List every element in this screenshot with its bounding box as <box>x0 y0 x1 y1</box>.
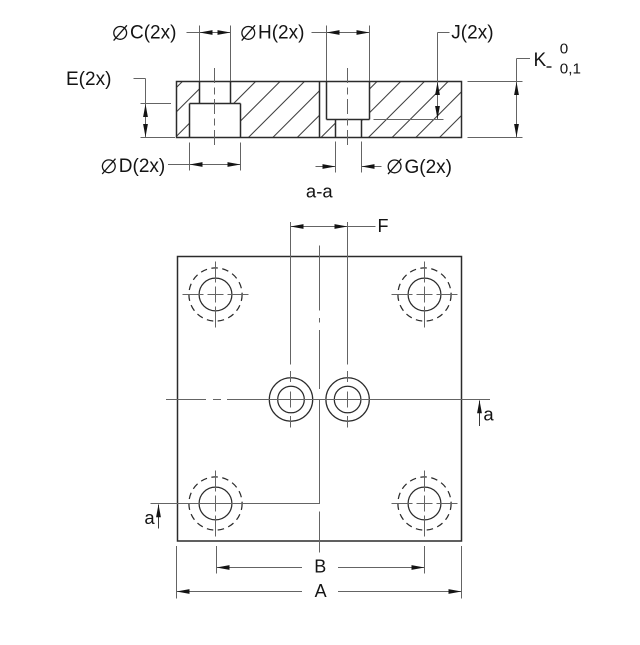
svg-text:D(2x): D(2x) <box>119 156 165 177</box>
centerline right hole <box>347 68 349 148</box>
dimension J: dimension line <box>437 82 439 120</box>
svg-text:a-a: a-a <box>306 180 333 201</box>
dimension G: outside arrows <box>316 166 336 168</box>
dimension J: leader <box>438 32 450 34</box>
dimension D: extension lines <box>189 143 191 171</box>
label ∅G(2x) <box>388 160 401 173</box>
svg-text:H(2x): H(2x) <box>258 23 304 44</box>
dimension K: leader and dimension line <box>517 58 531 60</box>
left counterbore D (section edges) <box>190 103 241 105</box>
corner hole bottom-left: center cross <box>183 471 249 537</box>
label ∅D(2x) <box>102 160 115 173</box>
svg-text:F: F <box>378 216 389 236</box>
corner hole top-left: bore circle <box>199 278 232 311</box>
svg-text:a: a <box>483 404 494 425</box>
horizontal centerline through center holes <box>166 399 462 401</box>
right hole bore G (section edges) <box>335 120 337 138</box>
dimension E: leader <box>134 78 146 80</box>
corner hole bottom-right: bore circle <box>408 487 441 520</box>
corner hole bottom-left: counterbore dashed circle <box>189 477 242 530</box>
svg-text:E(2x): E(2x) <box>66 69 111 90</box>
label ∅H(2x) <box>242 27 255 40</box>
vertical centerline of plate <box>319 246 321 553</box>
dimension E: dimension line <box>145 104 147 138</box>
section line a-a: horizontal leg through bottom-left hole <box>151 503 321 505</box>
corner hole bottom-right: center cross <box>392 471 458 537</box>
dimension C: extension lines <box>199 26 201 82</box>
center hole right: bore circle <box>334 386 361 413</box>
corner hole top-right: bore circle <box>408 278 441 311</box>
corner hole bottom-left: bore circle <box>199 487 232 520</box>
dimension C: dimension line and tail <box>187 32 231 34</box>
label ∅C(2x) <box>114 27 127 40</box>
hatching of sectioned plate (right of section bend) <box>320 80 498 139</box>
dimension B: extension lines <box>216 546 218 574</box>
plate outline (section) <box>177 82 462 138</box>
center hole left: vertical center ticks <box>290 371 292 428</box>
section arrow left <box>158 505 160 529</box>
plate outline (plan) <box>178 257 462 542</box>
corner hole bottom-right: counterbore dashed circle <box>398 477 451 530</box>
corner hole top-left: counterbore dashed circle <box>189 268 242 321</box>
center hole right: vertical center ticks <box>347 371 349 428</box>
svg-text:A: A <box>315 581 327 601</box>
corner hole top-right: counterbore dashed circle <box>398 268 451 321</box>
svg-text:0: 0 <box>560 40 568 57</box>
svg-text:B: B <box>314 557 326 577</box>
dimension H: extension lines <box>326 26 328 82</box>
right counterbore H (section edges) <box>326 82 328 120</box>
left hole bore C (section edges) <box>199 82 201 104</box>
corner hole top-left: center cross <box>183 262 249 328</box>
dimension F: dimension line and tail <box>291 226 376 228</box>
svg-text:a: a <box>144 507 155 528</box>
section line a-a: right stub <box>462 399 491 401</box>
svg-text:K: K <box>534 50 547 71</box>
section line a-a: vertical leg <box>319 400 321 504</box>
dimension A: dimension line <box>177 591 303 593</box>
dimension B: dimension line <box>217 567 303 569</box>
dimension D: dimension line and tail <box>168 164 241 166</box>
svg-text:C(2x): C(2x) <box>130 23 176 44</box>
dimension H: dimension line and tail <box>312 32 370 34</box>
dimension E: extension lines <box>141 103 172 105</box>
svg-text:J(2x): J(2x) <box>451 22 493 43</box>
hatching of sectioned plate (left of section bend) <box>125 80 355 139</box>
center hole left: bore circle <box>278 386 305 413</box>
svg-text:G(2x): G(2x) <box>405 157 453 178</box>
section bend line <box>319 82 321 138</box>
dimension G: extension lines <box>335 142 337 173</box>
corner hole top-right: center cross <box>392 262 458 328</box>
dimension A: extension lines <box>176 546 178 599</box>
center hole left: counterbore circle <box>269 378 312 421</box>
section arrow right <box>479 401 481 427</box>
centerline left hole <box>214 68 216 148</box>
dimension J: step extension line <box>374 119 444 121</box>
svg-text:0,1: 0,1 <box>560 61 581 78</box>
dimension K: extension lines <box>468 81 523 83</box>
dimension F: extension lines <box>290 222 292 365</box>
center hole right: counterbore circle <box>326 378 369 421</box>
